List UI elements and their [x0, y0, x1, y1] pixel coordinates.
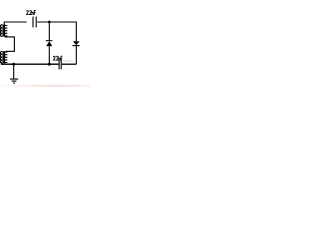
diode D1 cathode bar [46, 40, 53, 42]
diode D1 stem upper [48, 22, 50, 41]
diode D2 stem lower [75, 46, 77, 65]
diode D1 triangle (points up) [46, 41, 52, 46]
diode D2 cathode bar [72, 45, 79, 47]
wire bottom: transformer T1 bottom terminal to capacitor C2 left plate [2, 62, 59, 64]
junction node at bottom wire / ground [12, 63, 15, 66]
transformer T1 upper winding (left coil, core, right coil) [0, 25, 7, 37]
value label capacitor C1: 2.2nF [27, 11, 36, 15]
faint gray smudge right of capacitor C2 [63, 60, 73, 62]
background [0, 0, 90, 90]
diode D2 triangle (points down) [73, 41, 80, 45]
junction node at top wire / D1 [48, 21, 51, 24]
wire jog between transformer windings [5, 37, 15, 51]
wire top: capacitor C1 right plate to top-right corner down to diode D2 [37, 22, 76, 41]
capacitor C1 plates [33, 17, 36, 28]
ground bars [10, 79, 18, 83]
value label capacitor C2: 2.2nF [53, 56, 62, 60]
wire bottom: capacitor C2 right plate to diode D2 bottom [62, 63, 77, 65]
capacitor C2 plates [59, 59, 61, 69]
wire top: transformer T1 top terminal to gap before capacitor C1 [4, 22, 26, 25]
junction node at bottom wire / D1 [48, 63, 51, 66]
ground stem [13, 64, 15, 79]
diode D1 stem lower [48, 46, 50, 64]
transformer T1 lower winding (left coil, core, right coil) [0, 51, 7, 63]
